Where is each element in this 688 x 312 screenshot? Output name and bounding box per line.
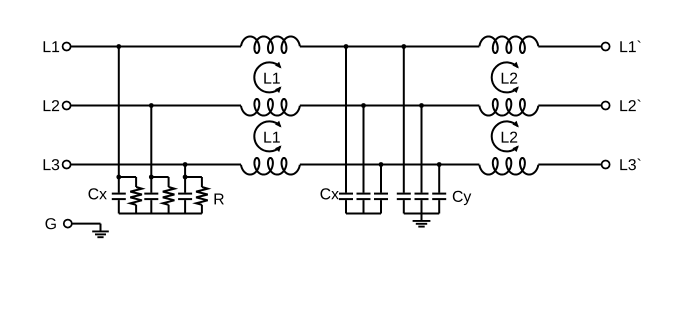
wire from line L2 down to middle Cx cap 2 bbox=[363, 106, 365, 193]
terminal L2 input bbox=[63, 102, 71, 110]
node on line L3 (Cy tap) bbox=[437, 162, 442, 167]
label G (ground input) bbox=[46, 218, 56, 229]
capacitor Cx1 bottom lead bbox=[118, 200, 120, 213]
resistor R1 top lead bbox=[135, 177, 137, 187]
wire G down to ground symbol bbox=[100, 224, 102, 232]
resistor R2 top lead bbox=[168, 177, 170, 187]
inductor L2 winding on line L2 bbox=[479, 99, 538, 116]
terminal L3` output bbox=[602, 161, 610, 169]
wire L3: input terminal to choke L1 bbox=[71, 164, 242, 166]
Cy cap 1 bottom lead bbox=[403, 200, 405, 213]
resistor R (branch 1) bbox=[130, 187, 142, 205]
resistor R2 bottom lead bbox=[168, 205, 170, 214]
inductor L2 winding on line L1 bbox=[479, 36, 538, 53]
wire from line L3 down to Cx branch 3 bbox=[184, 165, 186, 193]
value label R bbox=[215, 194, 224, 205]
node on line L1 (Cy tap) bbox=[401, 44, 406, 49]
wire branch 2 top jumper to resistor bbox=[151, 176, 168, 178]
middle Cx cap 3 bottom lead bbox=[380, 200, 382, 213]
coupling symbol choke L1 (between L1 and L2 windings) bbox=[254, 62, 281, 93]
resistor R (branch 3) bbox=[196, 187, 208, 205]
coupling symbol choke L1 (between L2 and L3 windings) bbox=[254, 121, 281, 152]
wire L1: input terminal to choke L1 bbox=[71, 46, 242, 48]
node on line L3 (middle Cx tap) bbox=[379, 162, 384, 167]
wire L3: choke L1 to choke L2 bbox=[300, 164, 480, 166]
node on line L3 (Cx branch 3 tap) bbox=[183, 162, 188, 167]
node on line L1 (middle Cx tap) bbox=[344, 44, 349, 49]
wire L3: choke L2 to output terminal bbox=[538, 164, 601, 166]
node on line L2 (middle Cx tap) bbox=[361, 103, 366, 108]
coupling symbol choke L2 (between L1 and L2 windings) bbox=[492, 62, 519, 93]
Cy cap 3 bottom lead bbox=[438, 200, 440, 213]
wire L1: choke L2 to output terminal bbox=[538, 46, 601, 48]
wire from line L1 down to Cx branch 1 bbox=[118, 47, 120, 193]
terminal L1 input bbox=[63, 43, 71, 51]
middle Cx cap 2 bottom lead bbox=[363, 200, 365, 213]
label L2` (output) bbox=[620, 100, 640, 112]
label L3 (input) bbox=[44, 159, 60, 170]
wire L1: choke L1 to choke L2 bbox=[300, 46, 480, 48]
terminal L2` output bbox=[602, 102, 610, 110]
middle Cx cap 1 bottom lead bbox=[345, 200, 347, 213]
node Cx/R branch 1 top junction bbox=[116, 175, 121, 180]
wire branch 3 top jumper to resistor bbox=[185, 176, 202, 178]
node on line L1 (Cx branch 1 tap) bbox=[116, 44, 121, 49]
capacitor Cx (branch 1) bbox=[112, 194, 126, 200]
wire bottom rail of Cy group bbox=[404, 213, 439, 215]
label L1 (input) bbox=[44, 41, 60, 52]
value label Cy bbox=[453, 191, 472, 205]
node Cx/R branch 3 top junction bbox=[183, 175, 188, 180]
Cy cap 2 bottom lead bbox=[421, 200, 423, 213]
resistor R (branch 2) bbox=[163, 187, 175, 205]
wire from line L3 down to Cy cap 3 bbox=[438, 165, 440, 193]
wire bottom rail of Cx/R network (floating star point) bbox=[119, 213, 202, 215]
wire L2: choke L2 to output terminal bbox=[538, 105, 601, 107]
label L3` (output) bbox=[620, 159, 640, 171]
node on line L2 (Cx branch 2 tap) bbox=[149, 103, 154, 108]
value label Cx (middle group) bbox=[321, 188, 339, 199]
capacitor Cx2 bottom lead bbox=[150, 200, 152, 213]
wire from line L2 down to Cx branch 2 bbox=[150, 106, 152, 193]
capacitor Cx (branch 2) bbox=[144, 194, 158, 200]
resistor R3 top lead bbox=[201, 177, 203, 187]
capacitor Cy (line L1) bbox=[397, 194, 411, 200]
value label Cx (left group) bbox=[89, 188, 107, 199]
label L1` (output) bbox=[620, 41, 640, 53]
wire L2: choke L1 to choke L2 bbox=[300, 105, 480, 107]
wire from line L3 down to middle Cx cap 3 bbox=[380, 165, 382, 193]
ground (G terminal) bbox=[92, 231, 109, 237]
resistor R3 bottom lead bbox=[201, 205, 203, 214]
ground (Cy star point) bbox=[413, 221, 431, 227]
inductor L1 winding on line L2 bbox=[241, 99, 300, 116]
capacitor Cy (line L2) bbox=[415, 194, 429, 200]
capacitor Cx (middle group, line L3) bbox=[374, 194, 388, 200]
inductor L2 winding on line L3 bbox=[479, 158, 538, 175]
wire Cy star point to ground bbox=[421, 214, 423, 221]
wire branch 1 top jumper to resistor bbox=[119, 176, 136, 178]
terminal L3 input bbox=[63, 161, 71, 169]
capacitor Cx (branch 3) bbox=[178, 194, 192, 200]
inductor L1 winding on line L3 bbox=[241, 158, 300, 175]
wire from line L2 down to Cy cap 2 bbox=[421, 106, 423, 193]
wire from terminal G bbox=[72, 223, 101, 225]
node Cx/R branch 2 top junction bbox=[149, 175, 154, 180]
wire bottom rail of middle Cx group (floating star point) bbox=[346, 213, 381, 215]
capacitor Cy (line L3) bbox=[432, 194, 446, 200]
resistor R1 bottom lead bbox=[135, 205, 137, 214]
wire from line L1 down to middle Cx cap 1 bbox=[345, 47, 347, 193]
inductor L1 winding on line L1 bbox=[241, 36, 300, 53]
capacitor Cx (middle group, line L2) bbox=[357, 194, 371, 200]
node on line L2 (Cy tap) bbox=[419, 103, 424, 108]
coupling symbol choke L2 (between L2 and L3 windings) bbox=[492, 121, 519, 152]
terminal L1` output bbox=[602, 43, 610, 51]
terminal G bbox=[64, 220, 72, 228]
wire from line L1 down to Cy cap 1 bbox=[403, 47, 405, 193]
wire L2: input terminal to choke L1 bbox=[71, 105, 242, 107]
capacitor Cx (middle group, line L1) bbox=[339, 194, 353, 200]
capacitor Cx3 bottom lead bbox=[184, 200, 186, 213]
label L2 (input) bbox=[44, 100, 60, 111]
